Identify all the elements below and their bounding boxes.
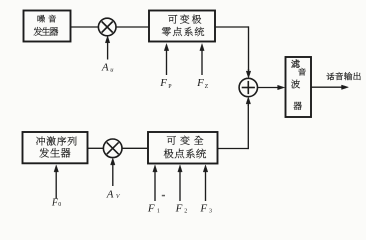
multiplier M1 (×)	[98, 18, 116, 36]
wire: M1 to pole-zero system	[116, 26, 149, 28]
svg-text:3: 3	[209, 208, 212, 214]
svg-text:2: 2	[184, 208, 187, 214]
output arrow	[311, 85, 349, 90]
variable all-pole system box 可变全极点系统	[148, 132, 218, 164]
arrow: Av gain control into M2	[111, 158, 116, 186]
svg-text:1: 1	[157, 208, 160, 214]
wire: all-pole box to adder, right then up	[218, 105, 249, 149]
svg-text:0: 0	[58, 202, 61, 208]
wire: M2 to all-pole system	[122, 147, 148, 149]
label F3	[199, 202, 212, 214]
svg-text:A: A	[101, 61, 109, 73]
label Av	[106, 189, 121, 201]
small ink speck	[162, 195, 165, 197]
wire: impulse generator to multiplier M2	[88, 147, 104, 149]
label Fp	[159, 77, 172, 90]
arrow: Au gain control into M1	[105, 36, 110, 60]
svg-text:F: F	[199, 202, 207, 214]
arrow: F1 formant control into all-pole box	[153, 165, 157, 201]
arrow: F3 formant control into all-pole box	[203, 165, 208, 201]
arrow into adder top	[246, 69, 251, 78]
label F1	[147, 202, 160, 214]
arrow: Fp control into pole-zero box	[164, 44, 169, 75]
wire: noise generator to multiplier M1	[71, 26, 99, 28]
svg-text:F: F	[147, 202, 155, 214]
multiplier M2 (×)	[103, 139, 122, 158]
label 话音输出 speech output	[326, 72, 360, 80]
svg-text:F: F	[175, 202, 183, 214]
adder (+)	[239, 78, 257, 96]
label Au	[101, 61, 114, 73]
svg-text:F: F	[159, 77, 167, 89]
arrow: F0 pitch control into impulse generator	[54, 165, 59, 198]
svg-text:Z: Z	[205, 84, 209, 90]
filter box 滤音波器 (vertical text)	[286, 57, 312, 117]
variable pole-zero system box 可变极零点系统	[149, 11, 215, 42]
label Fz	[196, 77, 209, 90]
impulse train generator box 冲激序列发生器	[23, 132, 88, 163]
arrow: F2 formant control into all-pole box	[178, 165, 182, 201]
arrow: Fz control into pole-zero box	[200, 44, 204, 75]
arrow into adder bottom	[246, 97, 251, 106]
label F2	[175, 202, 188, 214]
wire: pole-zero box to adder, right then down	[215, 26, 249, 70]
noise generator box 噪音发生器	[24, 11, 71, 42]
wire+arrow: adder to filter box	[258, 85, 285, 90]
svg-text:A: A	[106, 189, 114, 201]
svg-text:F: F	[196, 77, 204, 89]
label F0	[51, 197, 61, 208]
